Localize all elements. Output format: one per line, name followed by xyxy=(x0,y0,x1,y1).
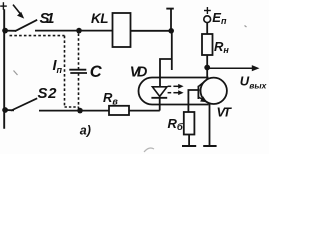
svg-text:Iп: Iп xyxy=(53,58,63,75)
capacitor C plates xyxy=(69,70,87,73)
svg-text:а): а) xyxy=(80,123,91,137)
svg-text:Rб: Rб xyxy=(168,116,184,133)
wire vertical tail below node xyxy=(171,31,173,70)
resistor Rн xyxy=(202,34,213,55)
terminal − (minus, top) xyxy=(166,8,174,10)
switch S2 blade xyxy=(11,98,37,110)
wire Rн to output node xyxy=(206,55,208,68)
relay coil KL xyxy=(113,13,131,47)
wire Rв to optocoupler xyxy=(129,110,160,112)
node C branch xyxy=(76,28,82,34)
svg-text:C: C xyxy=(90,63,103,81)
wire collector up lead xyxy=(206,68,208,81)
wire left rail xyxy=(3,9,5,129)
svg-text:VD: VD xyxy=(130,65,148,81)
node KL junction xyxy=(168,28,174,34)
output arrow Uвых xyxy=(207,65,259,71)
svg-text:S2: S2 xyxy=(38,85,58,102)
wire VT emitter down xyxy=(209,103,211,146)
LED VD cathode bar xyxy=(151,97,167,99)
wire S2 stub xyxy=(5,109,14,111)
node C return xyxy=(77,108,83,114)
light arrow 1 xyxy=(168,84,184,89)
LED VD triangle xyxy=(152,87,167,97)
optocoupler U1 body xyxy=(139,78,209,105)
node S1 left contact xyxy=(2,28,8,34)
svg-text:S1: S1 xyxy=(40,10,55,27)
dashed loop left side xyxy=(64,36,66,107)
resistor Rв xyxy=(109,106,129,115)
phototransistor VT circle xyxy=(201,78,227,104)
node S2 left contact xyxy=(2,107,8,113)
terminal + (plus, input left) xyxy=(0,2,7,10)
VT base bar xyxy=(197,86,199,99)
wire top (S1 to KL) xyxy=(35,30,113,32)
svg-text:Eп: Eп xyxy=(212,10,227,26)
dashed current loop Iп top xyxy=(10,35,65,37)
wire Rб bottom lead xyxy=(188,135,190,147)
svg-text:Rн: Rн xyxy=(214,39,229,55)
annotation arrow at S1 xyxy=(13,5,24,19)
wire elbow to LED anode xyxy=(160,59,172,87)
resistor Rб xyxy=(184,112,195,135)
light arrow 2 xyxy=(168,90,184,95)
node output xyxy=(204,65,210,71)
wire minus drop xyxy=(170,9,172,31)
svg-text:VT: VT xyxy=(217,105,233,120)
wire LED cathode to bottom wire xyxy=(159,98,161,111)
scan speck right xyxy=(245,26,247,28)
dashed C branch upper xyxy=(78,33,80,69)
wire VT base lead xyxy=(188,90,199,112)
terminal VT emitter bottom xyxy=(203,145,216,147)
scan speck left xyxy=(14,71,18,76)
scan speck bottom xyxy=(144,148,154,152)
dashed loop bottom xyxy=(65,106,79,108)
switch S1 blade xyxy=(15,20,37,31)
terminal Eп circle xyxy=(204,16,211,23)
wire Eп to Rн xyxy=(206,23,208,34)
VT collector diagonal xyxy=(198,79,207,87)
svg-text:Uвых: Uвых xyxy=(240,73,268,90)
terminal Rб bottom xyxy=(182,145,196,147)
VT emitter diagonal with arrow xyxy=(198,96,209,103)
dashed C branch lower xyxy=(78,73,80,108)
wire S1 stub xyxy=(5,30,16,32)
svg-text:Rв: Rв xyxy=(103,90,118,107)
wire bottom (S2 to Rв) xyxy=(39,110,109,112)
svg-text:KL: KL xyxy=(91,11,109,26)
supply + Eп (plus) xyxy=(204,7,211,14)
wire KL to node xyxy=(131,30,172,32)
